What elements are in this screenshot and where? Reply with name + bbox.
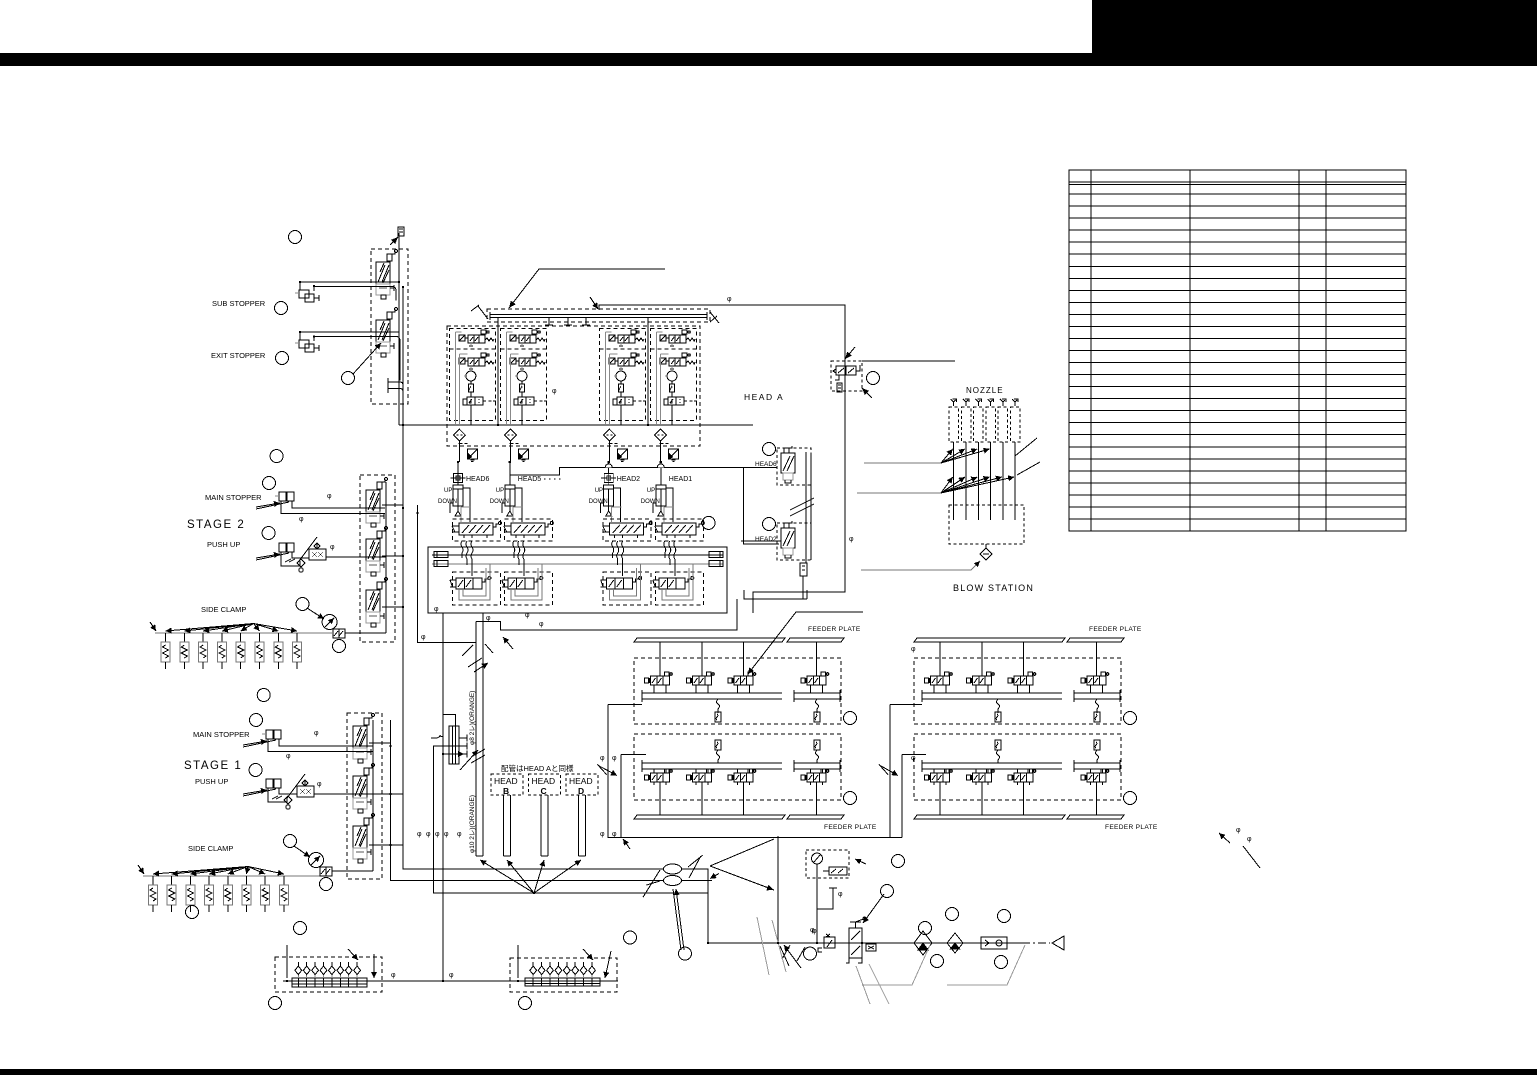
feeder left supply arrows xyxy=(597,764,617,775)
svg-text:φ: φ xyxy=(911,646,916,653)
svg-text:NOZZLE: NOZZLE xyxy=(966,386,1004,395)
svg-text:φ: φ xyxy=(838,891,843,898)
svg-text:HEAD5: HEAD5 xyxy=(518,476,541,483)
exhaust bracket xyxy=(388,378,403,393)
small bits after valve xyxy=(866,944,876,951)
feeder valve top 2 xyxy=(981,642,983,676)
svg-text:φ: φ xyxy=(330,544,335,551)
wire channel to box outlet xyxy=(476,599,737,630)
manifold left check valves xyxy=(295,962,302,987)
big V arrows at 778 xyxy=(710,839,774,890)
loop diamond s2 xyxy=(297,559,305,572)
cylinder port wires xyxy=(601,488,621,522)
gray loop xyxy=(662,564,693,600)
balloon fr1 xyxy=(1124,712,1137,725)
manifold right leader xyxy=(583,949,593,960)
svg-text:SUB STOPPER: SUB STOPPER xyxy=(212,299,266,308)
wires group xyxy=(507,332,528,424)
wires group xyxy=(657,332,678,424)
balloon leader to exit valve xyxy=(342,343,382,385)
dash link dots xyxy=(544,478,563,480)
cylinder main stopper s2 xyxy=(275,492,294,501)
nozzle 1 dashed box xyxy=(949,407,959,442)
stage1 collector vline xyxy=(369,720,403,871)
nozzle 4 dashed box xyxy=(986,407,996,442)
square fitting xyxy=(519,449,529,462)
wire arrows s2 xyxy=(285,559,295,562)
HEAD6 cylinder column xyxy=(450,462,471,522)
up/down valve dashed box xyxy=(655,519,703,541)
manifold right check valves xyxy=(530,962,537,986)
junction dots xyxy=(299,281,301,283)
vacuum ejector xyxy=(664,371,697,405)
valve 3/2 upper xyxy=(609,330,644,346)
HEAD6 valve dashed box xyxy=(777,448,811,485)
stage2 collector vline xyxy=(382,482,403,633)
wire head6 feed link xyxy=(510,467,777,475)
svg-text:HEAD6: HEAD6 xyxy=(466,476,489,483)
svg-text:UP: UP xyxy=(496,488,504,494)
blow lower dashed box xyxy=(949,505,1024,544)
wires head6/head2 feeds xyxy=(741,540,781,542)
balloon fl1 xyxy=(844,712,857,725)
svg-text:φ: φ xyxy=(600,831,605,838)
HEAD6 valve xyxy=(781,446,795,483)
svg-text:φ: φ xyxy=(849,536,854,543)
cylinder body xyxy=(656,485,666,516)
stage2 valve xyxy=(366,527,387,576)
block stub arrowheads xyxy=(460,738,464,754)
side clamp bus s1 xyxy=(143,875,320,877)
wires group xyxy=(456,332,477,424)
wavy drop wires xyxy=(612,541,624,576)
right connectors xyxy=(709,552,723,567)
air inlet triangle xyxy=(1052,936,1064,950)
svg-text:φ: φ xyxy=(539,621,544,628)
manifold feed drops xyxy=(497,318,499,424)
wire manifold to HEADA right edge xyxy=(599,305,845,613)
svg-text:φ: φ xyxy=(417,831,422,838)
HEAD2 cylinder column xyxy=(601,462,622,522)
balloon gauge xyxy=(892,855,905,868)
square fitting xyxy=(617,449,627,462)
wire block line B5 over-loop xyxy=(431,714,456,738)
zigzag hose top xyxy=(997,699,1000,713)
svg-text:φ: φ xyxy=(810,927,815,934)
manifold left feeds xyxy=(287,945,374,978)
leader push up s2 xyxy=(256,553,289,560)
muffler under head manifold xyxy=(800,563,807,576)
bottom dashed box xyxy=(634,734,841,800)
svg-text:UP: UP xyxy=(647,488,655,494)
coupler arrows xyxy=(643,855,719,897)
wire main stopper s2 xyxy=(281,501,385,513)
svg-text:HEAD: HEAD xyxy=(532,776,556,786)
nozzle 5 drop wire xyxy=(1002,442,1004,520)
svg-text:φ: φ xyxy=(327,493,332,500)
main air line xyxy=(708,942,1022,944)
svg-text:φ: φ xyxy=(911,755,916,762)
feeder valve top 2 xyxy=(701,642,703,676)
wires group xyxy=(606,332,627,424)
stage2 valve xyxy=(366,478,387,527)
bottom channel xyxy=(642,760,840,772)
black footer bar xyxy=(0,1069,1537,1075)
bottom valve xyxy=(653,577,694,598)
gauge valve xyxy=(823,867,847,875)
bus end arrow s2 xyxy=(150,622,156,631)
svg-text:φ: φ xyxy=(434,606,439,613)
fan arrows s1 xyxy=(153,867,248,875)
arrows at feeder drop xyxy=(780,945,801,968)
side clamp cylinders s2 xyxy=(161,633,170,669)
wire muffler down xyxy=(744,576,803,599)
gauge tee xyxy=(817,888,837,909)
cylinder SUB stopper xyxy=(295,290,319,302)
leader diagonal feeder left xyxy=(748,612,863,674)
svg-text:D: D xyxy=(578,786,584,796)
feeder plate top xyxy=(634,638,785,642)
feeder valve bottom 1 xyxy=(645,769,673,785)
muffler at top of bus xyxy=(390,227,404,245)
balloon fl2 xyxy=(844,792,857,805)
muffler bottom grp xyxy=(995,740,1001,750)
pipe under HEAD D xyxy=(579,795,586,856)
zigzag hose top xyxy=(717,699,720,713)
svg-text:SIDE CLAMP: SIDE CLAMP xyxy=(201,605,246,614)
muffler bottom grp xyxy=(715,740,721,750)
clamp valve s1 xyxy=(320,867,373,876)
cylinder push up s1 xyxy=(266,779,281,788)
balloons stage2 xyxy=(270,450,283,463)
cylinder body xyxy=(505,485,515,516)
HEAD B dashed box xyxy=(491,774,523,795)
svg-text:φ: φ xyxy=(391,972,396,979)
HEAD D dashed box xyxy=(566,774,598,795)
wire y599 xyxy=(744,598,807,600)
svg-text:φ: φ xyxy=(600,755,605,762)
svg-text:φ: φ xyxy=(314,730,319,737)
bottom distribution bus xyxy=(283,980,618,982)
feeder group left xyxy=(634,638,844,819)
svg-text:DOWN: DOWN xyxy=(490,499,509,505)
feeder right slant leader xyxy=(1219,833,1260,868)
svg-text:φ: φ xyxy=(444,831,449,838)
pressure gauge xyxy=(812,853,823,864)
nozzle 3 dashed box xyxy=(974,407,984,442)
svg-text:φ: φ xyxy=(612,755,617,762)
speed controller s1 xyxy=(297,780,314,797)
svg-text:DOWN: DOWN xyxy=(641,499,660,505)
svg-text:φ: φ xyxy=(552,388,557,395)
HEAD2 valve xyxy=(781,521,795,558)
svg-text:UP: UP xyxy=(444,488,452,494)
wire block line B7 xyxy=(443,753,467,755)
svg-text:B: B xyxy=(503,786,509,796)
svg-text:φ: φ xyxy=(1247,836,1252,843)
nozzle 2 drop wire xyxy=(965,442,967,520)
slant marks main line xyxy=(782,945,805,961)
valve blow xyxy=(833,365,860,380)
gray loop xyxy=(459,564,490,600)
cylinder main stopper s1 xyxy=(262,730,281,739)
manifold right bar xyxy=(525,978,600,986)
svg-text:φ: φ xyxy=(1236,827,1241,834)
svg-text:HEAD2: HEAD2 xyxy=(617,476,640,483)
center drop wire 443 xyxy=(442,613,444,981)
manifold dashed box xyxy=(487,309,710,322)
svg-text:φ: φ xyxy=(421,634,426,641)
HEAD5 cylinder column xyxy=(502,462,523,522)
svg-text:φ: φ xyxy=(317,781,322,788)
svg-text:FEEDER PLATE: FEEDER PLATE xyxy=(808,626,861,633)
channel cut arrows xyxy=(468,658,488,672)
speed controller s2 xyxy=(309,543,326,560)
feeder valve bottom 1 xyxy=(925,769,953,785)
feeder right supply arrows xyxy=(879,764,898,775)
feeder valve top 3 xyxy=(1023,642,1025,676)
valve 3/2 upper xyxy=(459,330,494,346)
svg-text:HEAD2: HEAD2 xyxy=(755,536,777,543)
wire main vertical bus B2 xyxy=(403,287,664,869)
filter 2 xyxy=(947,933,963,953)
up/down hatched valve xyxy=(603,522,653,539)
svg-text:φ: φ xyxy=(299,516,304,523)
stage1 valve xyxy=(353,764,374,813)
svg-text:PUSH UP: PUSH UP xyxy=(207,540,240,549)
bottom valve dashed box xyxy=(655,572,703,605)
bottom valve dashed box xyxy=(453,572,501,605)
svg-text:STAGE 1: STAGE 1 xyxy=(184,760,242,772)
balloon 1 xyxy=(289,231,302,244)
rotary s1 xyxy=(309,853,324,868)
channel mid arrow xyxy=(460,750,478,770)
wire head2 feed link xyxy=(743,467,779,543)
balloon HEAD2 xyxy=(763,518,776,531)
check fitting xyxy=(981,937,1007,949)
up/down valve dashed box xyxy=(453,519,501,541)
balloons under clamp s1 xyxy=(186,906,199,919)
wire push up s1 xyxy=(268,788,373,802)
wire push up s2 xyxy=(281,552,386,566)
stage1 valve xyxy=(353,814,374,863)
svg-text:BLOW STATION: BLOW STATION xyxy=(953,583,1034,593)
feeder plate bottom xyxy=(634,815,785,819)
wire block line B6 xyxy=(434,746,708,893)
loop diamond s1 xyxy=(284,796,292,809)
block stub tees right xyxy=(460,735,468,758)
valve blow dashed box xyxy=(831,361,862,391)
bottom valve dashed box xyxy=(504,572,552,605)
HEAD A outer dashed box xyxy=(447,326,700,446)
gauge drop wire xyxy=(816,864,818,943)
svg-text:SIDE CLAMP: SIDE CLAMP xyxy=(188,844,233,853)
fan arrows s2 xyxy=(166,624,254,632)
up/down hatched valve xyxy=(655,522,705,539)
leader arrow left tick xyxy=(471,305,488,319)
svg-text:φ: φ xyxy=(286,753,291,760)
wire sub stopper xyxy=(300,282,399,301)
rotary s2 xyxy=(322,615,337,630)
balloon head a xyxy=(702,516,715,529)
fan arrows to pipes xyxy=(480,860,534,893)
gray line to blow diamond xyxy=(861,561,980,570)
feeder valve bottom 4 xyxy=(801,769,829,785)
balloon HEAD6 xyxy=(763,443,776,456)
nozzle slant arrows right xyxy=(1015,438,1040,475)
balloons air prep xyxy=(919,922,932,935)
break slashes xyxy=(790,498,814,516)
channel top arrows xyxy=(462,637,513,656)
nozzle fan arrows lower xyxy=(941,477,953,493)
valve 3/2 lower xyxy=(459,353,494,369)
svg-text:φ: φ xyxy=(525,612,530,619)
svg-text:φ: φ xyxy=(449,972,454,979)
svg-text:HEAD: HEAD xyxy=(569,776,593,786)
nozzle 2 dashed box xyxy=(961,407,971,442)
manifold right dashed box xyxy=(510,958,617,992)
up/down valve dashed box xyxy=(504,519,552,541)
feeder left supply box xyxy=(608,704,902,837)
bottom valve xyxy=(601,577,642,598)
svg-text:φ: φ xyxy=(457,831,462,838)
balloon fr2 xyxy=(1124,792,1137,805)
manifold left dashed box xyxy=(275,957,382,992)
feeder valve top 4 xyxy=(816,642,818,676)
cylinder push up s2 xyxy=(279,543,294,552)
valve SUB stopper xyxy=(376,250,397,299)
bus line upper xyxy=(432,554,723,556)
leader arrow right tick xyxy=(710,312,719,323)
feeder valve bottom 2 xyxy=(967,769,995,785)
title block black box top-right xyxy=(1092,0,1537,66)
nozzle 6 dashed box xyxy=(1011,407,1021,442)
dashed valve box stoppers xyxy=(371,249,408,404)
cylinder port wires xyxy=(450,488,470,522)
oval coupler 1 xyxy=(664,864,682,874)
feeder right supply box xyxy=(890,704,926,837)
wire stage1 bus B4 xyxy=(391,720,664,881)
bottom valve xyxy=(450,577,491,598)
bus line lower gray xyxy=(432,563,723,565)
bottom valve dashed box xyxy=(603,572,651,605)
ejector group 3 dashed box xyxy=(599,329,646,462)
arrow gauge box xyxy=(855,859,866,864)
svg-text:HEAD A: HEAD A xyxy=(744,392,784,402)
vacuum ejector xyxy=(514,371,547,405)
wire main vertical bus B1 xyxy=(398,233,400,425)
muffler blow xyxy=(837,383,842,392)
cylinder EXIT stopper xyxy=(295,340,319,352)
wavy drop wires xyxy=(461,541,473,576)
feeder valve top 3 xyxy=(743,642,745,676)
svg-text:MAIN STOPPER: MAIN STOPPER xyxy=(205,493,262,502)
manifold bar xyxy=(490,312,707,320)
svg-text:PUSH UP: PUSH UP xyxy=(195,777,228,786)
STAGE2 dashed valve box xyxy=(360,475,395,642)
balloon blow xyxy=(867,372,880,385)
tee fitting xyxy=(451,471,466,486)
oval coupler 2 xyxy=(664,876,682,886)
up/down valve dashed box xyxy=(603,519,651,541)
black header bar xyxy=(0,53,1537,66)
feeder valve bottom 3 xyxy=(1008,769,1036,785)
top dashed box xyxy=(634,658,841,724)
feeder valve top 1 xyxy=(939,642,941,676)
square fitting xyxy=(467,449,477,462)
svg-text:MAIN STOPPER: MAIN STOPPER xyxy=(193,730,250,739)
valve 3/2 upper xyxy=(660,330,695,346)
svg-text:HEAD: HEAD xyxy=(494,776,518,786)
svg-text:FEEDER PLATE: FEEDER PLATE xyxy=(824,824,877,831)
hand valve xyxy=(846,917,866,963)
small reg before valve xyxy=(818,934,835,952)
vacuum ejector xyxy=(463,371,496,405)
svg-text:φ: φ xyxy=(435,831,440,838)
wavy drop wires xyxy=(513,541,525,576)
valve 3/2 upper xyxy=(510,330,545,346)
blow check diamond xyxy=(980,544,992,560)
pipe under HEAD C xyxy=(541,795,548,856)
nozzle fan arrows upper xyxy=(941,449,953,463)
quick exhaust diamond xyxy=(654,429,666,441)
clamp valve s2 xyxy=(333,629,386,638)
ejector group 4 dashed box xyxy=(651,329,698,462)
filter 1 xyxy=(914,931,932,955)
orange channel pipe xyxy=(476,613,483,856)
feeder valve bottom 4 xyxy=(1081,769,1109,785)
balloon 2 xyxy=(275,302,288,315)
valve EXIT stopper xyxy=(376,308,397,357)
top dashed box xyxy=(914,658,1121,724)
nozzle 5 dashed box xyxy=(998,407,1008,442)
cylinder body xyxy=(604,485,614,516)
leader spc s2 xyxy=(299,537,317,561)
gray loop xyxy=(511,564,542,600)
left connectors xyxy=(434,552,448,567)
tee plugs xyxy=(545,318,553,325)
HEAD C dashed box xyxy=(529,774,561,795)
manifold left bar xyxy=(292,978,367,987)
wire bus B3 xyxy=(418,505,476,643)
quick exhaust diamond xyxy=(603,429,615,441)
svg-text:配管はHEAD Aと同様: 配管はHEAD Aと同様 xyxy=(501,763,574,773)
side clamp bus s2 xyxy=(155,632,332,634)
feeder valve bottom 2 xyxy=(687,769,715,785)
wire arrows s1 xyxy=(272,796,282,799)
leader rotary s1 xyxy=(294,846,310,857)
stage1 valve xyxy=(353,714,374,763)
up/down hatched valve xyxy=(504,522,554,539)
ejector group 2 dashed box xyxy=(501,329,548,462)
junction box xyxy=(428,547,727,613)
leader arrow 2 xyxy=(590,297,598,309)
cylinder port wires xyxy=(653,488,673,522)
gray supply lines to nozzles xyxy=(857,463,941,493)
valve 3/2 lower xyxy=(660,353,695,369)
svg-text:UP: UP xyxy=(595,488,603,494)
nozzle 1 drop wire xyxy=(953,442,955,520)
wire ovals to right xyxy=(682,869,713,943)
feeder group right xyxy=(914,638,1124,819)
leader line to manifold xyxy=(509,269,665,308)
HEAD2 valve dashed box xyxy=(777,523,811,560)
leader main stopper s1 xyxy=(243,740,276,747)
bottom channel xyxy=(922,760,1120,772)
up/down hatched valve xyxy=(452,522,502,539)
leader push up s1 xyxy=(243,789,276,796)
top channel xyxy=(642,690,840,702)
